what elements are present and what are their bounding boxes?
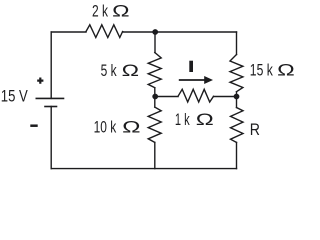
wire: top left segment: [51, 31, 86, 33]
wire: top middle segment (2k to node A): [123, 31, 156, 33]
svg-text:1 k: 1 k: [175, 111, 190, 129]
value label 10 kΩ: [94, 119, 141, 137]
resistor R10k 10 kΩ: [148, 107, 161, 142]
wire: bottom rail: [51, 168, 236, 170]
current arrow shaft: [179, 79, 206, 81]
resistor R5k 5 kΩ: [148, 53, 161, 88]
svg-text:Ω: Ω: [277, 62, 295, 80]
resistor R1k 1 kΩ: [178, 89, 214, 102]
current arrowhead: [204, 76, 213, 84]
wire: left rail top (battery + to top-left corner): [50, 32, 52, 98]
wire: 10k to bottom junction: [154, 142, 156, 168]
svg-text:5 k: 5 k: [101, 62, 118, 80]
value label 15 kΩ: [250, 62, 295, 80]
svg-text:15 V: 15 V: [1, 88, 28, 106]
resistor R2k 2 kΩ: [86, 25, 123, 38]
node A junction dot (top of 5k): [152, 29, 158, 35]
node B junction dot (15k/R/1k): [234, 94, 240, 100]
value label 2 kΩ: [92, 2, 130, 20]
svg-text:Ω: Ω: [196, 111, 214, 129]
wire: node B to resistor R: [236, 97, 238, 108]
resistor R15k 15 kΩ: [230, 55, 243, 92]
node C junction dot (5k/10k/1k): [152, 94, 158, 100]
current label I: [189, 61, 193, 72]
wire: middle branch top (node A to 5k): [154, 32, 156, 53]
value label 5 kΩ: [101, 62, 139, 80]
svg-text:Ω: Ω: [122, 62, 139, 80]
wire: middle horizontal right (1k to node B): [214, 96, 237, 98]
svg-text:Ω: Ω: [112, 2, 129, 20]
wire: left rail bottom (battery - to bottom-left corner): [50, 107, 52, 169]
wire: middle horizontal left (node C to 1k): [155, 96, 178, 98]
wire: 5k to node C: [154, 88, 156, 97]
wire: right rail lower (R to bottom-right corner): [236, 142, 238, 168]
battery plus sign: [37, 78, 43, 84]
svg-text:10 k: 10 k: [94, 119, 117, 137]
battery V1 positive plate (long): [36, 97, 63, 99]
value label 1 kΩ: [175, 111, 214, 129]
battery V1 negative plate (short): [45, 106, 57, 108]
resistor R (unknown): [231, 108, 244, 143]
battery minus sign: [30, 124, 37, 127]
wire: middle branch (node C to 10k): [154, 97, 156, 108]
svg-text:2 k: 2 k: [92, 2, 109, 20]
wire: 15k to node B: [236, 92, 238, 97]
wire: right rail upper (corner to 15k): [236, 32, 238, 55]
svg-text:R: R: [250, 121, 260, 139]
wire: top right segment (node A to top-right corner): [156, 31, 237, 33]
svg-text:15 k: 15 k: [250, 62, 274, 80]
svg-text:Ω: Ω: [122, 119, 140, 137]
